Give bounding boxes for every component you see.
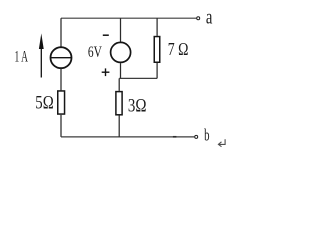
current source I1 bar bbox=[50, 57, 71, 59]
wire 3 ohm upper lead bbox=[118, 78, 120, 91]
svg-text:7 Ω: 7 Ω bbox=[168, 39, 189, 59]
svg-text:a: a bbox=[206, 7, 213, 29]
polarity plus sign bbox=[102, 68, 110, 76]
resistor 7 ohm body bbox=[154, 37, 160, 63]
wire 6V branch lower bbox=[120, 63, 122, 78]
current direction arrow head bbox=[39, 33, 44, 49]
wire top rail bbox=[61, 17, 196, 19]
svg-text:b: b bbox=[204, 126, 209, 145]
current source I1 circle bbox=[51, 47, 72, 68]
wire 3 ohm lower lead bbox=[118, 116, 120, 137]
junction dash on bottom rail bbox=[173, 136, 177, 138]
svg-text:5Ω: 5Ω bbox=[35, 93, 53, 113]
terminal b bbox=[195, 135, 198, 138]
paragraph return mark bbox=[218, 139, 225, 147]
resistor 3 ohm body bbox=[116, 92, 122, 115]
wire left branch upper bbox=[60, 18, 62, 46]
svg-text:6V: 6V bbox=[88, 44, 102, 61]
wire mid horizontal node bbox=[119, 77, 157, 79]
wire 7 ohm lower lead bbox=[156, 63, 158, 78]
polarity minus sign bbox=[103, 34, 109, 36]
svg-text:3Ω: 3Ω bbox=[128, 96, 147, 116]
voltage source 6V circle bbox=[111, 42, 131, 62]
wire left branch lower bbox=[60, 115, 62, 137]
wire bottom rail bbox=[61, 136, 194, 138]
terminal a bbox=[197, 17, 200, 20]
wire 7 ohm upper lead bbox=[156, 18, 158, 36]
current direction arrow shaft bbox=[40, 42, 42, 78]
wire 6V branch upper bbox=[120, 18, 122, 42]
wire left branch middle bbox=[60, 69, 62, 91]
resistor 5 ohm body bbox=[58, 91, 65, 114]
svg-text:1 A: 1 A bbox=[15, 49, 29, 66]
